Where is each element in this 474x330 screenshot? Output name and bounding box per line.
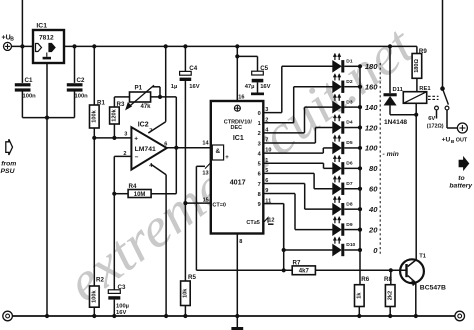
svg-text:5: 5 [258,162,261,168]
svg-text:10M: 10M [134,192,146,198]
svg-text:IC1: IC1 [233,135,244,142]
svg-text:R8: R8 [384,276,392,283]
svg-text:3: 3 [124,131,127,137]
svg-text:CT=0: CT=0 [212,202,226,208]
svg-text:6: 6 [164,141,167,147]
svg-text:47k: 47k [141,104,152,110]
svg-text:16V: 16V [189,84,199,90]
svg-text:IC1: IC1 [36,23,47,30]
svg-text:D6: D6 [346,161,353,167]
svg-text:R5: R5 [188,274,196,281]
svg-text:160: 160 [365,83,378,92]
svg-text:R9: R9 [419,48,427,55]
svg-text:100n: 100n [75,94,89,100]
svg-text:2k2: 2k2 [387,291,393,300]
svg-text:13: 13 [202,170,208,176]
svg-text:&: & [215,148,220,155]
svg-text:180: 180 [365,62,378,71]
svg-text:+: + [225,155,229,161]
svg-text:8: 8 [239,239,242,245]
svg-text:B: B [10,36,14,42]
svg-text:RE1: RE1 [419,86,431,92]
svg-text:P1: P1 [135,85,143,92]
svg-text:D8: D8 [346,201,353,207]
svg-text:100n: 100n [23,94,37,100]
svg-text:R3: R3 [117,101,125,108]
svg-text:B: B [451,139,455,145]
svg-text:T1: T1 [419,253,427,259]
svg-text:D3: D3 [346,99,353,105]
svg-text:R1: R1 [97,100,105,107]
svg-text:1: 1 [258,121,261,127]
svg-text:BC547B: BC547B [420,284,446,291]
svg-text:6: 6 [258,172,261,178]
svg-text:3: 3 [258,141,261,147]
svg-text:60: 60 [369,185,378,194]
svg-text:D11: D11 [393,87,404,93]
svg-text:120k: 120k [112,108,118,121]
svg-text:7812: 7812 [39,34,54,41]
svg-text:C3: C3 [118,284,126,291]
svg-text:from: from [1,161,16,168]
svg-text:12: 12 [268,218,274,224]
svg-text:CT≥5: CT≥5 [246,220,259,226]
svg-text:100: 100 [365,144,378,153]
svg-text:100k: 100k [92,289,98,302]
svg-text:140: 140 [365,103,378,112]
svg-text:LM741: LM741 [135,146,156,153]
svg-text:R2: R2 [96,276,104,283]
svg-text:4017: 4017 [230,178,246,187]
svg-text:16V: 16V [260,84,270,90]
svg-text:D5: D5 [346,140,353,146]
svg-text:+U: +U [2,35,11,42]
svg-text:D7: D7 [346,181,353,187]
svg-text:C2: C2 [77,77,85,84]
svg-text:40: 40 [368,205,378,214]
svg-text:1k: 1k [357,292,363,299]
svg-text:1N4148: 1N4148 [384,119,407,126]
svg-text:R6: R6 [361,276,369,283]
svg-text:47µ: 47µ [245,84,255,90]
svg-text:C5: C5 [260,65,268,72]
svg-text:D9: D9 [346,222,353,228]
svg-text:R7: R7 [293,259,301,266]
svg-text:OUT: OUT [456,137,468,143]
svg-text:D2: D2 [346,79,353,85]
svg-text:2: 2 [258,131,261,137]
svg-text:D10: D10 [346,242,355,248]
svg-text:80: 80 [369,164,378,173]
svg-text:D4: D4 [346,120,353,126]
svg-text:15: 15 [203,197,209,203]
svg-text:1µ: 1µ [171,84,178,90]
svg-text:20: 20 [368,225,378,234]
svg-text:+: + [134,136,138,143]
svg-text:PSU: PSU [1,168,16,175]
svg-text:R4: R4 [129,183,137,190]
svg-text:to: to [458,175,464,182]
svg-text:battery: battery [449,182,473,189]
svg-text:100µ: 100µ [116,304,129,310]
svg-text:DEC: DEC [230,125,242,131]
svg-text:D1: D1 [346,59,353,65]
svg-text:(172Ω): (172Ω) [427,123,444,129]
svg-text:−: − [135,154,139,161]
svg-text:+U: +U [442,136,451,143]
svg-text:14: 14 [202,141,209,147]
svg-text:180Ω: 180Ω [414,58,420,72]
svg-text:0: 0 [258,111,261,117]
svg-text:C4: C4 [189,65,197,72]
svg-text:8: 8 [258,192,261,198]
svg-text:6V: 6V [428,116,435,122]
svg-text:9: 9 [258,202,261,208]
svg-text:100k: 100k [92,109,98,122]
svg-text:7: 7 [258,182,261,188]
svg-text:10k: 10k [183,288,189,298]
svg-text:120: 120 [365,123,378,132]
svg-text:16V: 16V [116,310,126,316]
svg-text:4k7: 4k7 [299,269,310,275]
svg-text:IC2: IC2 [138,122,149,129]
svg-text:16: 16 [238,94,244,100]
svg-text:C1: C1 [25,77,33,84]
svg-text:- min: - min [383,151,399,158]
